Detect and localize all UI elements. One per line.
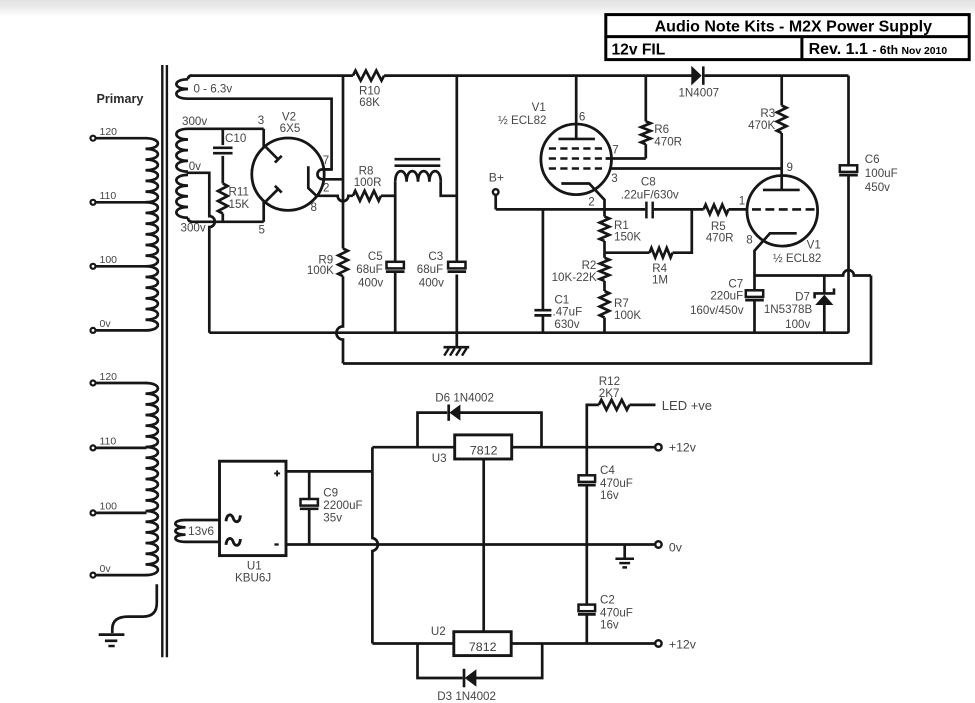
terminal 0v (lower primary tap) xyxy=(91,563,147,578)
svg-text:1M: 1M xyxy=(652,274,668,287)
V1a anode (pin 6) xyxy=(575,76,578,139)
terminal 100 (upper primary tap) xyxy=(91,254,147,269)
transformer secondary 300v lower winding xyxy=(176,175,205,235)
wire: U3 input line xyxy=(372,446,454,449)
svg-text:100K: 100K xyxy=(307,264,334,277)
svg-text:100uF: 100uF xyxy=(865,167,898,180)
svg-text:35v: 35v xyxy=(323,511,342,524)
capacitor C6 xyxy=(839,76,897,333)
svg-text:100: 100 xyxy=(100,254,118,266)
svg-text:R3: R3 xyxy=(760,107,775,120)
wire: +12v lower rail xyxy=(511,642,654,645)
svg-text:+12v: +12v xyxy=(669,638,697,652)
transformer primary winding (upper) xyxy=(146,138,158,330)
svg-text:0v: 0v xyxy=(189,160,201,173)
svg-text:7812: 7812 xyxy=(469,640,497,654)
wire: 0v rail xyxy=(286,543,654,546)
svg-text:400v: 400v xyxy=(358,277,383,290)
diode D3 1N4002 xyxy=(418,644,543,703)
svg-text:160v/450v: 160v/450v xyxy=(690,304,744,317)
svg-text:16v: 16v xyxy=(600,619,619,632)
svg-text:1: 1 xyxy=(739,195,745,208)
svg-text:15K: 15K xyxy=(229,198,250,211)
svg-text:V1: V1 xyxy=(532,101,546,114)
wire: B+ / grid coupling line xyxy=(496,208,747,211)
svg-text:R7: R7 xyxy=(614,297,629,310)
svg-text:68uF: 68uF xyxy=(356,263,382,276)
svg-text:R11: R11 xyxy=(229,185,249,198)
wire: V2 pin 8 to R8 (hops over vertical) xyxy=(316,196,353,201)
svg-text:470uF: 470uF xyxy=(600,606,633,619)
svg-text:0v: 0v xyxy=(669,540,683,554)
svg-text:C5: C5 xyxy=(368,250,383,263)
svg-text:8: 8 xyxy=(311,201,317,214)
svg-text:9: 9 xyxy=(787,161,793,174)
pentode V1a (1/2 ECL82) xyxy=(498,76,619,217)
svg-text:6: 6 xyxy=(579,111,585,124)
svg-text:C6: C6 xyxy=(865,153,880,166)
zener diode D7 1N5378B xyxy=(764,276,834,333)
wire: DC rail vertical (hops over 0v rail) xyxy=(372,447,377,643)
V2 heater hook xyxy=(317,169,343,179)
rectifier tube V2 6X5 xyxy=(252,110,343,236)
resistor R5 xyxy=(704,205,734,245)
svg-text:C8: C8 xyxy=(641,175,656,188)
resistor R6 xyxy=(641,76,682,159)
svg-text:68uF: 68uF xyxy=(417,263,443,276)
svg-text:68K: 68K xyxy=(359,96,380,109)
V2 anode plate (pin 5) xyxy=(262,201,265,222)
transformer secondary 13v6 winding xyxy=(175,520,219,542)
svg-text:16v: 16v xyxy=(600,489,619,502)
wire: elevated heater/cathode return bus xyxy=(343,276,871,364)
svg-text:150K: 150K xyxy=(614,231,641,244)
svg-text:120: 120 xyxy=(100,371,118,383)
wire: 6.3v lead to V2 heater/cathode xyxy=(188,99,332,170)
svg-text:0v: 0v xyxy=(100,563,112,575)
svg-text:Audio Note Kits - M2X Power Su: Audio Note Kits - M2X Power Supply xyxy=(655,19,932,36)
U1 AC marks xyxy=(226,515,240,522)
svg-text:450v: 450v xyxy=(865,181,890,194)
transformer core xyxy=(162,65,167,657)
bridge rectifier U1 KBU6J xyxy=(220,461,287,584)
resistor R2 xyxy=(552,253,610,284)
wire: V1b cathode to C7/D7 (hops over C6 rail) xyxy=(755,270,872,275)
svg-text:2K7: 2K7 xyxy=(599,387,620,400)
svg-text:U2: U2 xyxy=(431,625,446,638)
svg-text:1N4007: 1N4007 xyxy=(678,87,719,100)
svg-text:C2: C2 xyxy=(600,594,615,607)
transformer secondary 300v upper winding xyxy=(176,115,207,172)
terminal 120 (upper primary tap) xyxy=(91,126,147,141)
svg-text:½ ECL82: ½ ECL82 xyxy=(498,114,546,127)
svg-text:.22uF/630v: .22uF/630v xyxy=(621,189,679,202)
U1 minus mark xyxy=(274,543,278,545)
svg-text:B+: B+ xyxy=(489,171,504,185)
capacitor C1 xyxy=(534,209,582,332)
svg-text:3: 3 xyxy=(611,172,617,185)
capacitor C3 xyxy=(417,250,466,290)
svg-text:220uF: 220uF xyxy=(710,289,743,302)
svg-text:5: 5 xyxy=(259,223,265,236)
svg-text:10K-22K: 10K-22K xyxy=(552,271,597,284)
resistor R12 xyxy=(587,375,656,447)
resistor R8 xyxy=(353,164,395,200)
resistor R4 xyxy=(605,209,692,286)
svg-text:630v: 630v xyxy=(554,318,579,331)
svg-text:D7: D7 xyxy=(795,290,810,303)
capacitor C8 xyxy=(621,175,679,218)
wire: 300v secondary top lead to V2 pin 3 xyxy=(188,127,264,130)
svg-text:U3: U3 xyxy=(432,452,447,465)
transformer secondary 0-6.3v heater winding xyxy=(176,76,232,99)
svg-text:KBU6J: KBU6J xyxy=(235,571,271,584)
regulator U2 7812 xyxy=(431,625,511,656)
svg-text:100K: 100K xyxy=(614,309,641,322)
svg-text:D3 1N4002: D3 1N4002 xyxy=(437,690,496,703)
U1 plus mark xyxy=(274,472,280,474)
svg-text:6X5: 6X5 xyxy=(280,122,301,135)
wire: secondary 0v centre tap xyxy=(187,160,215,333)
capacitor C4 xyxy=(578,447,633,544)
wire: main 0v bus (upper circuit) xyxy=(209,331,848,334)
resistor R1 xyxy=(600,217,642,253)
svg-text:2: 2 xyxy=(588,195,594,208)
svg-text:400v: 400v xyxy=(419,277,444,290)
wire: HT top bus xyxy=(190,74,849,77)
wire: V1a pin 7 to R6 xyxy=(606,157,646,160)
wire: HT rail to choke/C3 xyxy=(455,76,458,333)
resistor R11 xyxy=(218,184,249,222)
svg-text:110: 110 xyxy=(100,190,117,202)
svg-text:C4: C4 xyxy=(600,464,615,477)
svg-text:V1: V1 xyxy=(807,238,821,251)
terminal 0v (upper primary tap) xyxy=(91,318,147,333)
capacitor C10 xyxy=(213,129,246,184)
svg-text:½ ECL82: ½ ECL82 xyxy=(773,252,821,265)
svg-text:C9: C9 xyxy=(323,487,338,500)
resistor R7 xyxy=(600,281,642,333)
wire: U1 + output xyxy=(286,470,372,473)
svg-text:1N5378B: 1N5378B xyxy=(764,303,813,316)
wire: U2 input line xyxy=(372,642,453,645)
terminal +12v (upper) xyxy=(655,441,697,455)
resistor R9 xyxy=(307,249,348,278)
terminal 100 (lower primary tap) xyxy=(91,501,147,516)
svg-text:2200uF: 2200uF xyxy=(323,499,362,512)
V1a grids xyxy=(549,147,606,150)
svg-text:7: 7 xyxy=(612,144,618,157)
triode V1b (1/2 ECL82) xyxy=(739,161,822,290)
svg-text:3: 3 xyxy=(258,114,264,127)
capacitor C2 xyxy=(578,545,633,644)
V1a cathode (pin 2) xyxy=(561,184,604,217)
wire: transformer screen to chassis xyxy=(112,584,157,633)
capacitor C9 xyxy=(300,471,363,544)
V2 anode plate (pin 3) xyxy=(262,129,265,148)
svg-text:8: 8 xyxy=(746,233,752,246)
capacitor C5 xyxy=(356,250,404,333)
wire: B+ feed vertical (V2 cathode / R9 chain) xyxy=(336,76,343,364)
V1b grid (pin 1) xyxy=(752,208,815,211)
svg-text:300v: 300v xyxy=(182,115,207,128)
svg-text:C3: C3 xyxy=(428,250,443,263)
svg-text:100v: 100v xyxy=(785,318,810,331)
terminal B+ xyxy=(489,171,504,210)
terminal +12v (lower) xyxy=(655,638,697,652)
resistor R10 xyxy=(353,71,384,110)
svg-text:470R: 470R xyxy=(654,136,682,149)
diode 1N4007 xyxy=(678,66,719,99)
svg-text:120: 120 xyxy=(100,126,118,138)
svg-text:LED +ve: LED +ve xyxy=(662,398,712,413)
wire: +12v upper rail xyxy=(512,446,655,449)
ground (earth) transformer screen xyxy=(99,635,125,646)
svg-text:110: 110 xyxy=(100,436,117,448)
wire: V1a screen grid (pin 3) to R3 node xyxy=(611,167,781,170)
svg-text:300v: 300v xyxy=(181,222,206,235)
terminal 110 (lower primary tap) xyxy=(91,436,147,451)
ground (earth) on 0v rail xyxy=(615,545,634,568)
svg-text:470K: 470K xyxy=(748,119,775,132)
wire: U3 ground lead xyxy=(482,459,485,632)
svg-text:0v: 0v xyxy=(100,318,112,330)
terminal 0v xyxy=(655,540,683,554)
svg-text:100R: 100R xyxy=(354,176,382,189)
title block xyxy=(606,15,969,60)
V1b anode (pin 9) xyxy=(763,189,800,192)
V2 cathode xyxy=(308,166,316,196)
resistor R3 xyxy=(748,76,786,190)
V1b cathode (pin 8) xyxy=(755,233,797,290)
svg-text:2: 2 xyxy=(323,182,329,195)
svg-text:+12v: +12v xyxy=(669,441,697,455)
svg-text:.47uF: .47uF xyxy=(553,305,583,318)
regulator U3 7812 xyxy=(432,435,512,465)
wire: 300v secondary bottom lead to V2 pin 5 xyxy=(188,218,264,222)
svg-text:R6: R6 xyxy=(654,123,669,136)
terminal 120 (lower primary tap) xyxy=(91,371,147,386)
svg-text:Primary: Primary xyxy=(97,92,144,106)
svg-text:13v6: 13v6 xyxy=(188,524,214,538)
svg-text:0 - 6.3v: 0 - 6.3v xyxy=(194,83,233,96)
svg-text:D6 1N4002: D6 1N4002 xyxy=(435,391,494,404)
svg-text:470R: 470R xyxy=(706,232,734,245)
terminal 110 (upper primary tap) xyxy=(91,190,147,205)
ground (hatched chassis) xyxy=(444,333,470,356)
capacitor C7 xyxy=(690,278,764,333)
inductor L1 choke xyxy=(395,159,457,262)
svg-text:7: 7 xyxy=(323,154,329,167)
svg-text:C10: C10 xyxy=(225,132,246,145)
diode D6 1N4002 xyxy=(418,391,542,447)
svg-text:100: 100 xyxy=(100,501,118,513)
transformer primary winding (lower) xyxy=(146,383,158,575)
svg-text:12v FIL: 12v FIL xyxy=(612,42,666,59)
svg-text:7812: 7812 xyxy=(470,444,498,458)
